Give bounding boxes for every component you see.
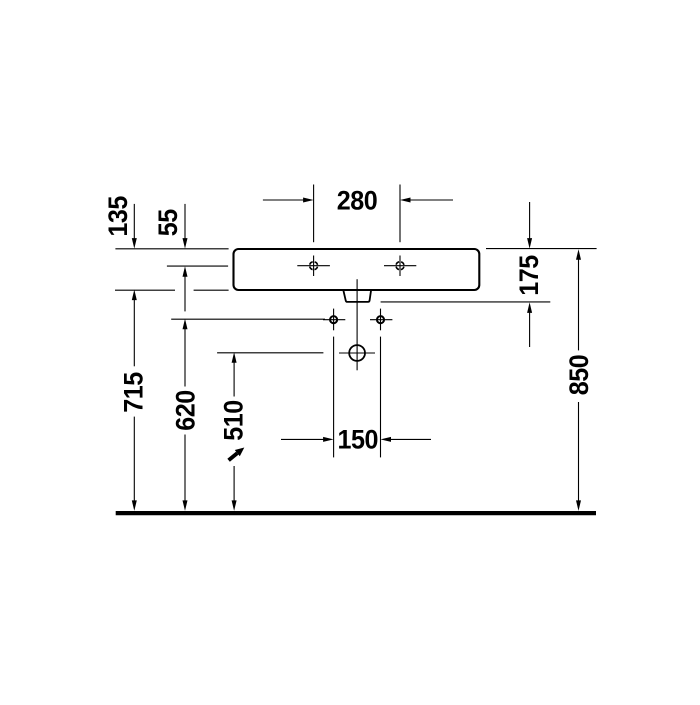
left ext line row C (basin bottom) xyxy=(115,289,175,291)
floor line xyxy=(116,511,596,515)
right ext line bottom (drain bottom) xyxy=(381,301,551,303)
svg-text:850: 850 xyxy=(564,355,594,396)
svg-text:150: 150 xyxy=(338,425,379,455)
dim 510 line xyxy=(232,352,237,363)
left ext line row A (basin top) xyxy=(115,248,228,250)
svg-text:135: 135 xyxy=(103,196,133,237)
left ext line row D (wall holes) xyxy=(171,318,325,320)
drain trapezoid xyxy=(343,290,371,302)
dim 280 ext lines xyxy=(313,185,315,243)
dim 150 ext lines xyxy=(333,337,335,458)
svg-text:55: 55 xyxy=(153,209,183,236)
svg-text:620: 620 xyxy=(170,390,200,431)
dim 135 down arrow xyxy=(133,204,135,239)
row E (510 level) xyxy=(217,352,323,354)
dim 850 line xyxy=(576,249,581,260)
wall hole left xyxy=(323,309,345,331)
right ext line top (rim) xyxy=(486,248,597,250)
dim 150 left arrow xyxy=(281,438,324,440)
dim 150 right arrow xyxy=(391,438,432,440)
NE annotation arrow xyxy=(229,453,238,460)
dim 280 right arrow xyxy=(410,199,453,201)
svg-text:280: 280 xyxy=(337,185,378,215)
dim 55 down arrow xyxy=(184,204,186,239)
svg-text:510: 510 xyxy=(218,400,248,441)
dim 175 bottom arrow xyxy=(527,302,532,313)
faucet hole right crosshair xyxy=(384,256,416,277)
faucet hole left crosshair xyxy=(297,256,330,277)
dim 620 line xyxy=(183,319,188,330)
svg-text:715: 715 xyxy=(119,372,149,413)
dim 715 line xyxy=(132,290,137,301)
centerline through drain xyxy=(356,279,358,370)
dim 55 up arrow xyxy=(183,266,188,277)
left ext line row B (faucet level) xyxy=(167,265,228,267)
dim 175 top arrow xyxy=(529,202,531,239)
wall hole right xyxy=(370,309,392,331)
svg-text:175: 175 xyxy=(514,255,544,296)
basin body outline xyxy=(234,249,480,290)
big drain circle xyxy=(339,345,375,361)
dim 280 left arrow xyxy=(263,199,304,201)
